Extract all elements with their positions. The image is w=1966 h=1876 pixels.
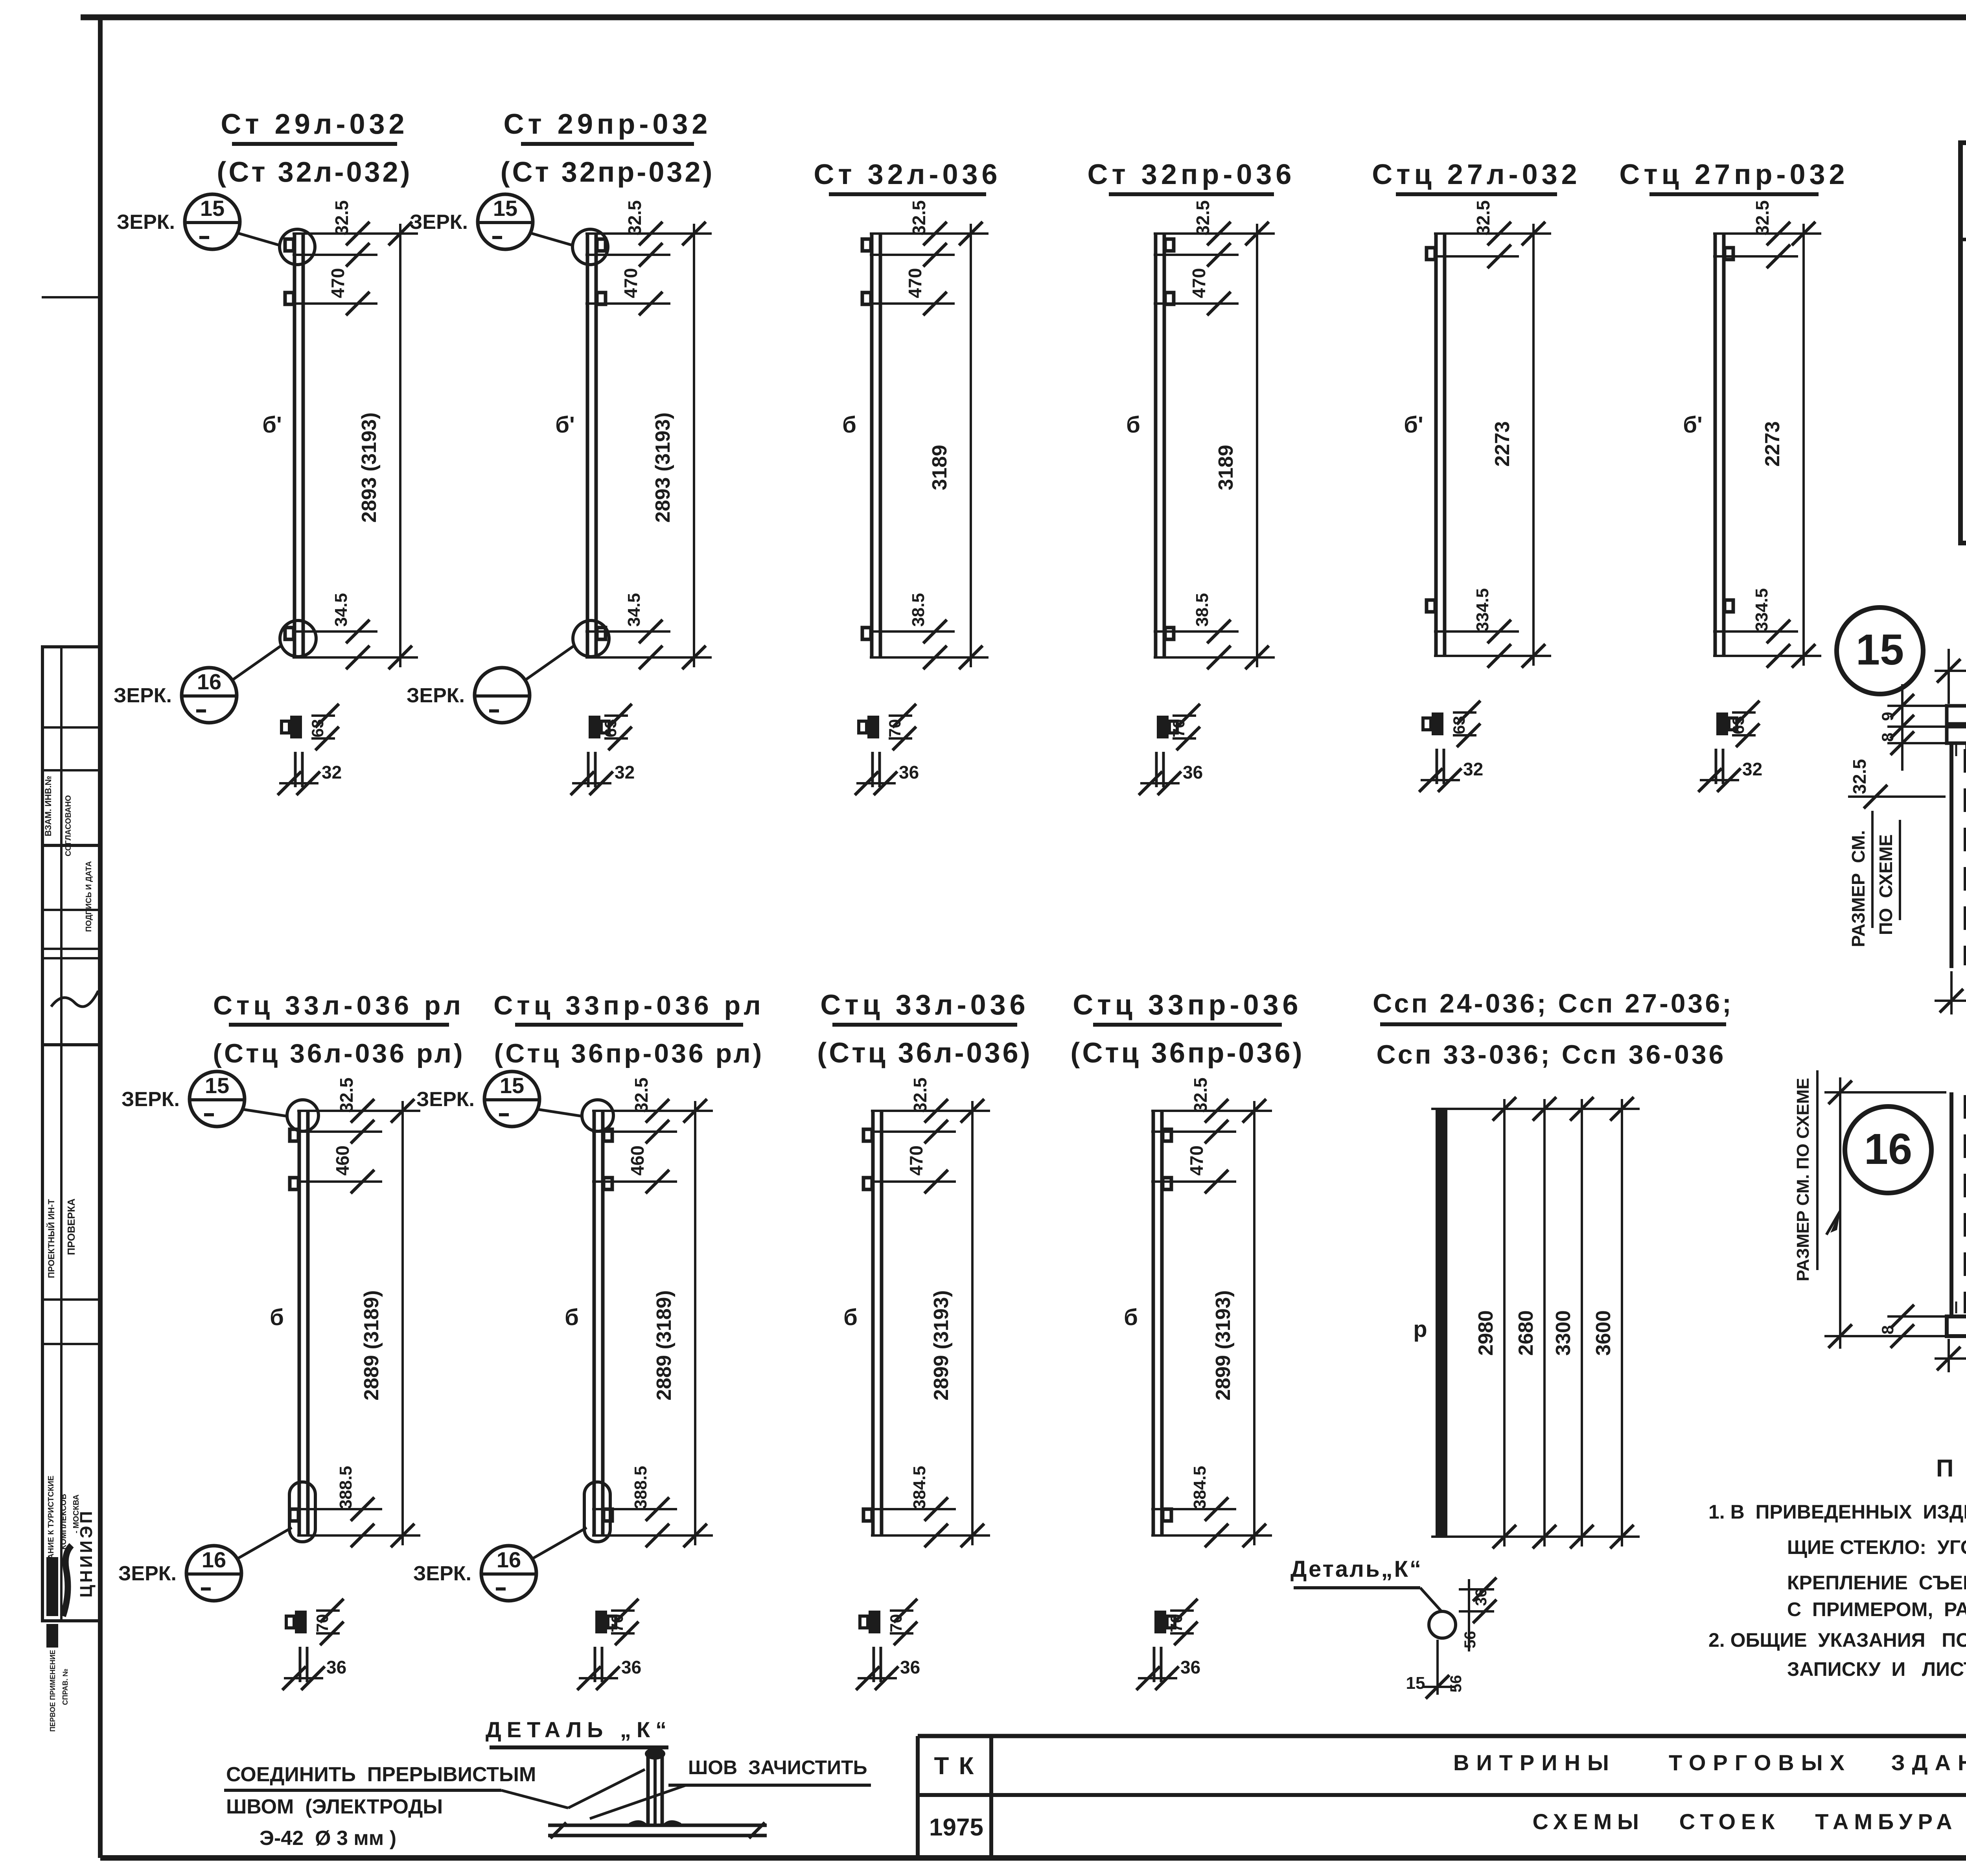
svg-text:1. В ПРИВЕДЕННЫХ ИЗДЕЛИЯХ О: 1. В ПРИВЕДЕННЫХ ИЗДЕЛИЯХ ОПУЩЕНЫ СЪЕМНЫ… <box>1708 1501 1966 1523</box>
post stand Стц33пр-036рл callout 15 <box>416 1071 613 1131</box>
post stand Стц33пр-036 <box>1070 989 1304 1547</box>
svg-text:470: 470 <box>1186 1145 1207 1176</box>
svg-text:(Стц 36пр-036): (Стц 36пр-036) <box>1070 1037 1304 1069</box>
svg-text:3189: 3189 <box>928 445 951 490</box>
svg-text:СХЕМЫ СТОЕК ТАМБУРА: СХЕМЫ СТОЕК ТАМБУРА <box>1532 1809 1957 1834</box>
svg-text:63: 63 <box>1729 716 1747 735</box>
spacer bars Ссп24-036 Ссп27-036 Ссп33-036 Ссп36-036 <box>1373 989 1734 1548</box>
svg-text:36: 36 <box>1180 1657 1200 1677</box>
post stand Ст32пр-036 plan section <box>1139 704 1203 795</box>
svg-text:Ссп 24-036; Ссп 27-036;: Ссп 24-036; Ссп 27-036; <box>1373 989 1734 1018</box>
post stand Стц27пр-032 <box>1619 159 1848 668</box>
svg-text:Ссп 33-036; Ссп 36-036: Ссп 33-036; Ссп 36-036 <box>1377 1040 1726 1070</box>
svg-text:70: 70 <box>608 1614 626 1633</box>
detail 16 column view <box>1793 1070 1966 1422</box>
svg-text:32.5: 32.5 <box>624 200 645 236</box>
svg-text:15: 15 <box>1406 1673 1425 1693</box>
svg-text:36: 36 <box>900 1657 920 1677</box>
svg-text:ЗЕРК.: ЗЕРК. <box>410 211 468 234</box>
svg-text:36: 36 <box>1473 1589 1490 1606</box>
svg-text:1975: 1975 <box>929 1814 983 1841</box>
svg-text:8: 8 <box>1878 1325 1897 1334</box>
svg-text:Деталь„К“: Деталь„К“ <box>1290 1556 1423 1582</box>
svg-text:б': б' <box>555 412 575 438</box>
svg-text:3600: 3600 <box>1592 1310 1615 1356</box>
svg-text:ЗЕРК.: ЗЕРК. <box>114 684 172 707</box>
svg-text:2893 (3193): 2893 (3193) <box>652 412 674 523</box>
post stand Стц27пр-032 plan section <box>1698 701 1762 792</box>
svg-text:Стц 33л-036: Стц 33л-036 <box>820 989 1029 1021</box>
svg-text:Ст 29л-032: Ст 29л-032 <box>221 109 408 140</box>
post stand Стц33л-036 plan section <box>856 1599 920 1690</box>
svg-text:б: б <box>565 1305 579 1330</box>
svg-text:ЗЕРК.: ЗЕРК. <box>413 1562 471 1585</box>
svg-text:ВИТРИНЫ ТОРГОВЫХ ЗДАНИЙ: ВИТРИНЫ ТОРГОВЫХ ЗДАНИЙ <box>1453 1750 1966 1775</box>
svg-text:16: 16 <box>1864 1125 1912 1173</box>
svg-text:56: 56 <box>1447 1675 1465 1693</box>
svg-text:16: 16 <box>202 1547 226 1572</box>
svg-text:3300: 3300 <box>1552 1310 1575 1356</box>
svg-text:470: 470 <box>328 268 348 298</box>
weld detail drawing <box>548 1748 767 1838</box>
svg-text:ЗАПИСКУ И ЛИСТ КМ-0.: ЗАПИСКУ И ЛИСТ КМ-0. <box>1787 1658 1966 1680</box>
svg-text:ПРОЕКТНЫЙ ИН-Т: ПРОЕКТНЫЙ ИН-Т <box>46 1199 56 1278</box>
svg-text:32: 32 <box>322 762 342 782</box>
svg-text:КОМПЛЕКСОВ: КОМПЛЕКСОВ <box>59 1494 68 1550</box>
svg-text:ЗЕРК.: ЗЕРК. <box>416 1088 475 1111</box>
svg-text:32.5: 32.5 <box>631 1077 652 1113</box>
svg-text:б': б' <box>1683 412 1703 438</box>
svg-text:СПРАВ. №: СПРАВ. № <box>61 1669 69 1705</box>
detail 15 column view <box>1848 639 1966 1033</box>
svg-text:38.5: 38.5 <box>909 593 928 627</box>
svg-text:(Стц 36л-036 рл): (Стц 36л-036 рл) <box>213 1038 465 1068</box>
svg-text:ЗЕРК.: ЗЕРК. <box>407 684 465 707</box>
svg-text:ШВОМ (ЭЛЕКТРОДЫ: ШВОМ (ЭЛЕКТРОДЫ <box>226 1795 443 1818</box>
svg-text:2899 (3193): 2899 (3193) <box>930 1290 953 1400</box>
post stand Ст29пр-032 <box>501 109 715 669</box>
svg-text:Э-42 Ø 3 мм ): Э-42 Ø 3 мм ) <box>260 1827 396 1850</box>
svg-text:Стц 33л-036 рл: Стц 33л-036 рл <box>213 990 465 1020</box>
svg-text:470: 470 <box>906 1145 926 1176</box>
svg-text:16: 16 <box>497 1547 521 1572</box>
Деталь К callout at spacer bottom <box>1290 1556 1497 1699</box>
post stand Ст29л-032 plan section <box>278 704 342 795</box>
svg-text:36: 36 <box>326 1657 346 1677</box>
svg-text:2899 (3193): 2899 (3193) <box>1212 1290 1235 1400</box>
title block frame <box>918 1736 1966 1858</box>
svg-text:Т К: Т К <box>934 1753 976 1780</box>
svg-text:32.5: 32.5 <box>1190 1077 1211 1113</box>
svg-text:2. ОБЩИЕ УКАЗАНИЯ ПО ТЕХНО: 2. ОБЩИЕ УКАЗАНИЯ ПО ТЕХНОЛОГИИ ИЗГОТОВЛ… <box>1708 1629 1966 1651</box>
svg-text:56: 56 <box>1462 1631 1479 1649</box>
svg-text:2889 (3189): 2889 (3189) <box>360 1290 383 1400</box>
svg-text:63: 63 <box>601 719 620 738</box>
post stand Ст29л-032 callout 15 <box>117 194 315 265</box>
svg-text:32.5: 32.5 <box>336 1077 357 1113</box>
detail 16 callout circle <box>1845 1106 1931 1193</box>
svg-text:ПРОВЕРКА: ПРОВЕРКА <box>65 1199 77 1255</box>
svg-text:9: 9 <box>1878 712 1897 721</box>
post stand Ст29пр-032 callout 16 <box>407 620 609 723</box>
post stand Стц33л-036рл <box>213 990 465 1547</box>
svg-text:70: 70 <box>887 1614 905 1633</box>
post stand Ст29л-032 callout 16 <box>114 620 316 723</box>
svg-text:460: 460 <box>332 1145 353 1176</box>
svg-text:б: б <box>842 412 856 438</box>
post stand Стц33л-036 <box>817 989 1032 1547</box>
svg-text:70: 70 <box>885 719 904 738</box>
svg-text:8: 8 <box>1878 733 1897 742</box>
weld note left <box>224 1763 645 1850</box>
svg-text:334.5: 334.5 <box>1473 588 1492 631</box>
svg-text:384.5: 384.5 <box>910 1466 929 1509</box>
svg-text:63: 63 <box>1450 716 1468 735</box>
svg-text:б': б' <box>1404 412 1423 438</box>
svg-text:2273: 2273 <box>1491 421 1514 467</box>
post stand Ст29пр-032 plan section <box>571 704 635 795</box>
post stand Стц27л-032 <box>1372 159 1581 668</box>
svg-text:2889 (3189): 2889 (3189) <box>653 1290 676 1400</box>
svg-text:б: б <box>843 1305 858 1330</box>
svg-text:32: 32 <box>1742 759 1762 779</box>
svg-text:70: 70 <box>1169 719 1188 738</box>
svg-text:(Ст 32пр-032): (Ст 32пр-032) <box>501 156 715 188</box>
svg-text:б: б <box>1124 1305 1138 1330</box>
svg-text:П р и м е ч а н и я: П р и м е ч а н и я <box>1936 1455 1966 1482</box>
svg-text:32.5: 32.5 <box>331 200 352 236</box>
svg-text:32: 32 <box>1463 759 1483 779</box>
svg-text:15: 15 <box>500 1073 524 1098</box>
svg-text:ЗЕРК.: ЗЕРК. <box>121 1088 180 1111</box>
svg-text:15: 15 <box>205 1073 229 1098</box>
notes text <box>1708 1501 1966 1680</box>
svg-text:63: 63 <box>308 719 327 738</box>
svg-text:СОЕДИНИТЬ ПРЕРЫВИСТЫМ: СОЕДИНИТЬ ПРЕРЫВИСТЫМ <box>226 1763 536 1786</box>
post stand Стц33л-036рл plan section <box>282 1599 346 1690</box>
svg-text:ЗЕРК.: ЗЕРК. <box>118 1562 177 1585</box>
left margin stamp column <box>42 647 100 1045</box>
svg-text:б: б <box>270 1305 284 1330</box>
svg-text:(Стц 36л-036): (Стц 36л-036) <box>817 1037 1032 1069</box>
svg-text:РАЗМЕР СМ.: РАЗМЕР СМ. <box>1848 830 1868 947</box>
svg-text:Ст 32л-036: Ст 32л-036 <box>814 159 1001 190</box>
svg-text:34.5: 34.5 <box>624 593 644 627</box>
svg-text:32.5: 32.5 <box>909 200 929 236</box>
svg-text:15: 15 <box>1856 626 1904 674</box>
title block texts <box>929 1744 1966 1857</box>
svg-text:388.5: 388.5 <box>631 1466 650 1509</box>
svg-text:2893 (3193): 2893 (3193) <box>358 412 381 523</box>
post stand Стц33л-036рл callout 15 <box>121 1071 318 1131</box>
svg-text:70: 70 <box>1167 1614 1185 1633</box>
svg-text:ПОДПИСЬ И ДАТА: ПОДПИСЬ И ДАТА <box>85 861 93 932</box>
svg-text:б: б <box>1126 412 1140 438</box>
svg-text:2680: 2680 <box>1515 1310 1537 1356</box>
post stand Стц33л-036рл callout 16 <box>118 1482 315 1601</box>
svg-text:С ПРИМЕРОМ, РАЗРАБОТАННЫМ: С ПРИМЕРОМ, РАЗРАБОТАННЫМ НА СТР. 5. <box>1787 1598 1966 1620</box>
left margin lower stamp text <box>42 1045 100 1732</box>
svg-text:36: 36 <box>1183 762 1203 782</box>
svg-text:ПЕРВОЕ ПРИМЕНЕНИЕ: ПЕРВОЕ ПРИМЕНЕНИЕ <box>49 1650 57 1732</box>
svg-text:38.5: 38.5 <box>1193 593 1212 627</box>
svg-text:ШОВ ЗАЧИСТИТЬ: ШОВ ЗАЧИСТИТЬ <box>688 1756 867 1778</box>
svg-text:460: 460 <box>627 1145 648 1176</box>
detail 15 callout circle <box>1837 608 1923 694</box>
svg-text:16: 16 <box>197 669 221 694</box>
svg-text:ВЗАМ. ИНВ.№: ВЗАМ. ИНВ.№ <box>43 776 53 836</box>
svg-text:Стц 27пр-032: Стц 27пр-032 <box>1619 159 1848 190</box>
post stand Стц33пр-036рл <box>493 990 764 1547</box>
svg-text:Ст 29пр-032: Ст 29пр-032 <box>504 109 712 140</box>
svg-text:470: 470 <box>1189 268 1209 298</box>
svg-text:ДЕТАЛЬ „К“: ДЕТАЛЬ „К“ <box>486 1717 672 1742</box>
svg-text:ЩИЕ СТЕКЛО: УГОЛОК 20×3 ( ВА: ЩИЕ СТЕКЛО: УГОЛОК 20×3 ( ВАРИАНТ„У“) И … <box>1787 1536 1966 1558</box>
svg-text:3189: 3189 <box>1215 445 1237 490</box>
post stand Стц27л-032 plan section <box>1419 701 1483 792</box>
svg-text:384.5: 384.5 <box>1190 1466 1209 1509</box>
svg-text:ПО СХЕМЕ: ПО СХЕМЕ <box>1876 834 1896 935</box>
svg-text:СОГЛАСОВАНО: СОГЛАСОВАНО <box>64 795 73 856</box>
svg-text:388.5: 388.5 <box>336 1466 355 1509</box>
svg-text:Стц 33пр-036 рл: Стц 33пр-036 рл <box>493 990 764 1020</box>
svg-text:334.5: 334.5 <box>1752 588 1771 631</box>
svg-text:34.5: 34.5 <box>331 593 351 627</box>
post stand Ст32пр-036 <box>1088 159 1296 669</box>
svg-text:32: 32 <box>615 762 635 782</box>
svg-text:2980: 2980 <box>1474 1310 1497 1356</box>
post stand Стц33пр-036рл plan section <box>577 1599 641 1690</box>
post stand Ст29пр-032 callout 15 <box>410 194 608 265</box>
svg-text:15: 15 <box>493 196 517 221</box>
Деталь К weld detail title <box>486 1717 672 1747</box>
weld note right <box>590 1756 871 1819</box>
svg-text:б': б' <box>262 412 282 438</box>
svg-text:15: 15 <box>200 196 225 221</box>
svg-text:36: 36 <box>899 762 919 782</box>
svg-text:(Стц 36пр-036 рл): (Стц 36пр-036 рл) <box>494 1038 764 1068</box>
svg-text:70: 70 <box>313 1614 331 1633</box>
svg-text:Ст 32пр-036: Ст 32пр-036 <box>1088 159 1296 190</box>
svg-text:2273: 2273 <box>1761 421 1784 467</box>
svg-text:Стц 27л-032: Стц 27л-032 <box>1372 159 1581 190</box>
svg-text:32.5: 32.5 <box>1849 759 1870 794</box>
table of element sections <box>1960 89 1966 543</box>
svg-text:р: р <box>1413 1316 1427 1342</box>
svg-text:Стц 33пр-036: Стц 33пр-036 <box>1073 989 1302 1021</box>
svg-text:36: 36 <box>621 1657 641 1677</box>
notes heading Примечания <box>1936 1455 1966 1482</box>
svg-text:32.5: 32.5 <box>910 1077 930 1113</box>
post stand Ст29л-032 <box>217 109 418 669</box>
svg-text:(Ст 32л-032): (Ст 32л-032) <box>217 156 412 188</box>
left margin fold marks <box>42 297 100 949</box>
svg-text:32.5: 32.5 <box>1193 200 1213 236</box>
svg-text:32.5: 32.5 <box>1473 200 1493 236</box>
svg-text:РАЗМЕР СМ. ПО СХЕМЕ: РАЗМЕР СМ. ПО СХЕМЕ <box>1793 1078 1813 1281</box>
svg-text:32.5: 32.5 <box>1752 200 1773 236</box>
post stand Ст32л-036 <box>814 159 1001 669</box>
post stand Ст32л-036 plan section <box>855 704 919 795</box>
svg-text:ЦНИИЭП: ЦНИИЭП <box>77 1509 96 1598</box>
svg-text:ЗЕРК.: ЗЕРК. <box>117 211 175 234</box>
svg-text:КРЕПЛЕНИЕ СЪЕМНЫХ ЭЛЕМЕНТОВ: КРЕПЛЕНИЕ СЪЕМНЫХ ЭЛЕМЕНТОВ К СТОЙКАМ ВЫ… <box>1787 1571 1966 1594</box>
post stand Стц33пр-036 plan section <box>1136 1599 1200 1690</box>
svg-text:470: 470 <box>905 268 925 298</box>
svg-text:470: 470 <box>620 268 641 298</box>
post stand Стц33пр-036рл callout 16 <box>413 1482 610 1601</box>
